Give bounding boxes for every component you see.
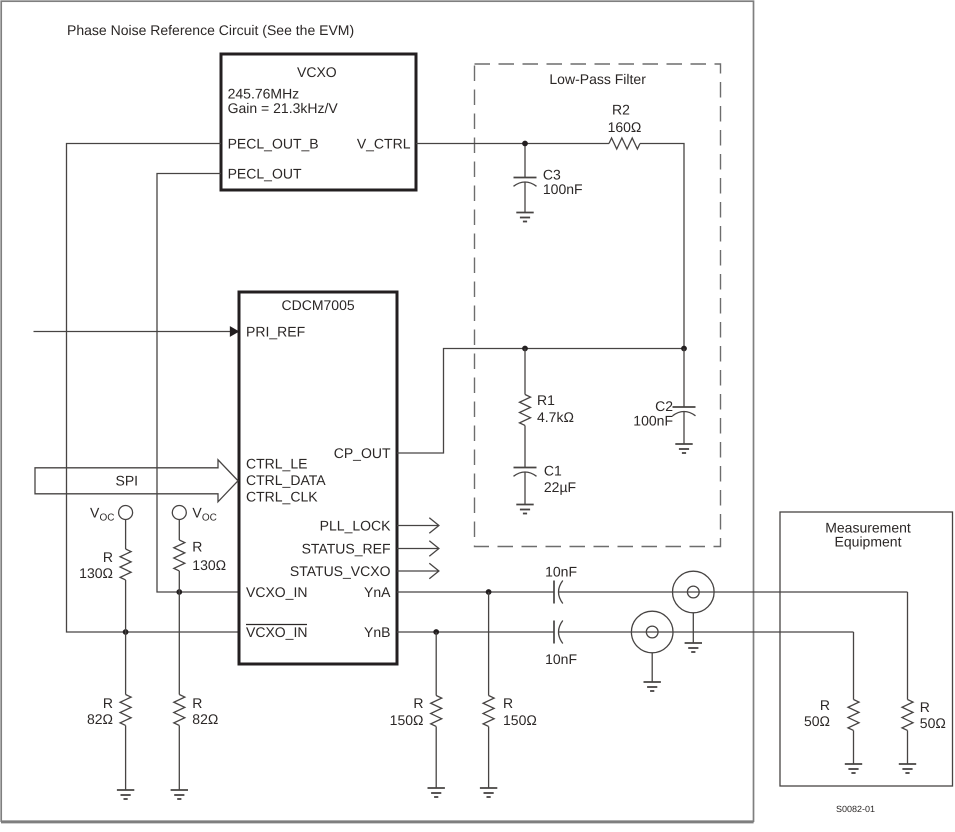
capacitor C3 100nF xyxy=(514,146,583,213)
svg-text:R: R xyxy=(413,695,423,711)
svg-text:130Ω: 130Ω xyxy=(79,565,113,581)
svg-text:C1: C1 xyxy=(544,463,562,479)
svg-text:150Ω: 150Ω xyxy=(503,712,537,728)
svg-text:100nF: 100nF xyxy=(633,413,673,429)
svg-text:10nF: 10nF xyxy=(545,564,577,580)
svg-text:10nF: 10nF xyxy=(545,651,577,667)
ground below C2 xyxy=(675,444,692,453)
wire YnA node to R 150 col2 xyxy=(488,592,490,696)
wire YnA to coupling cap xyxy=(397,591,554,593)
svg-text:V_CTRL: V_CTRL xyxy=(357,136,411,152)
svg-text:YnA: YnA xyxy=(364,584,391,600)
wire R150 col2 to ground xyxy=(488,727,490,789)
Voc terminal circle, column 1 xyxy=(90,505,133,524)
resistor R 130 column 2 xyxy=(174,539,226,574)
svg-text:CTRL_DATA: CTRL_DATA xyxy=(246,472,326,488)
resistor R1 4.7k xyxy=(520,392,574,425)
wire Voc to R 130 col1 xyxy=(125,520,127,550)
svg-text:CTRL_LE: CTRL_LE xyxy=(246,456,307,472)
svg-text:82Ω: 82Ω xyxy=(87,711,113,727)
svg-text:R2: R2 xyxy=(612,102,630,118)
junction node R1 top xyxy=(522,346,528,352)
svg-text:VCXO: VCXO xyxy=(297,64,337,80)
ground R50 left xyxy=(845,764,862,773)
Voc terminal circle, column 2 xyxy=(172,505,217,524)
wire R82 col2 to ground xyxy=(178,726,180,791)
resistor R 150 column 1 xyxy=(390,695,442,728)
resistor R 82 column 1 xyxy=(87,695,131,728)
Low-Pass Filter dashed enclosure xyxy=(475,64,721,547)
svg-text:22µF: 22µF xyxy=(544,479,576,495)
svg-text:SPI: SPI xyxy=(116,472,139,488)
svg-text:Phase Noise Reference Circuit: Phase Noise Reference Circuit (See the E… xyxy=(67,22,354,38)
capacitor 10nF on YnA xyxy=(545,564,577,604)
capacitor C1 22uF xyxy=(514,463,577,505)
svg-text:130Ω: 130Ω xyxy=(192,557,226,573)
Measurement Equipment box xyxy=(780,512,953,786)
svg-text:CP_OUT: CP_OUT xyxy=(334,445,391,461)
junction node: VCXO_IN / R divider column 2 xyxy=(176,589,182,595)
wire R130 col1 to node xyxy=(125,580,127,632)
svg-text:R: R xyxy=(920,699,930,715)
junction node YnB / R150 col1 xyxy=(433,629,439,635)
svg-text:CDCM7005: CDCM7005 xyxy=(282,297,355,313)
STATUS_VCXO output arrow xyxy=(397,563,439,579)
STATUS_REF output arrow xyxy=(397,541,439,557)
capacitor C2 100nF xyxy=(633,349,695,445)
CDCM7005 block U2 xyxy=(239,292,397,664)
wire 10nF to measurement equipment (YnB) xyxy=(559,631,854,633)
wire YnB into measurement, down to R50 left xyxy=(853,632,855,700)
wire YnA into measurement, down to R50 right xyxy=(907,592,909,700)
svg-text:82Ω: 82Ω xyxy=(192,711,218,727)
svg-text:CTRL_CLK: CTRL_CLK xyxy=(246,489,318,505)
resistor R 82 column 2 xyxy=(174,695,219,728)
wire YnB node to R 150 col1 xyxy=(435,632,437,696)
svg-text:R: R xyxy=(503,695,513,711)
coax connector on YnB xyxy=(631,611,673,682)
svg-text:50Ω: 50Ω xyxy=(920,715,946,731)
wire 10nF to measurement equipment (YnA) xyxy=(559,591,908,593)
wire PECL_OUT to VCXO_IN (left, down, right) xyxy=(157,174,238,593)
ground of YnA coax shield xyxy=(685,643,702,652)
svg-text:V: V xyxy=(192,505,202,521)
outer border frame of EVM circuit xyxy=(1,1,753,821)
wire node to R1 xyxy=(524,349,526,395)
wire R1 to C1 xyxy=(524,426,526,468)
wire Voc to R 130 col2 xyxy=(178,520,180,541)
resistor R 50 right xyxy=(902,699,946,731)
svg-text:160Ω: 160Ω xyxy=(608,119,642,135)
svg-text:Gain = 21.3kHz/V: Gain = 21.3kHz/V xyxy=(228,100,339,116)
ground of YnB coax shield xyxy=(644,682,661,691)
svg-text:R: R xyxy=(103,549,113,565)
ground column 2 xyxy=(171,790,188,799)
resistor R 50 left xyxy=(804,697,859,730)
svg-text:VCXO_IN: VCXO_IN xyxy=(246,624,307,640)
svg-text:4.7kΩ: 4.7kΩ xyxy=(537,409,574,425)
wire node to R 82 col2 xyxy=(178,592,180,695)
resistor R 130 column 1 xyxy=(79,549,131,581)
ground below C3 xyxy=(516,213,533,222)
svg-text:Low-Pass Filter: Low-Pass Filter xyxy=(549,71,646,87)
junction node C2 top xyxy=(681,346,687,352)
svg-text:PRI_REF: PRI_REF xyxy=(246,324,305,340)
wire node to R 82 col1 xyxy=(125,632,127,695)
svg-text:VCXO_IN: VCXO_IN xyxy=(246,584,307,600)
junction node V_CTRL / C3 xyxy=(522,141,528,147)
resistor R 150 column 2 xyxy=(483,695,537,728)
svg-text:STATUS_VCXO: STATUS_VCXO xyxy=(290,563,391,579)
svg-text:V: V xyxy=(90,505,100,521)
svg-text:R: R xyxy=(192,539,202,555)
ground column 1 xyxy=(117,790,134,799)
wire PRI_REF input xyxy=(34,331,232,333)
coax connector on YnA xyxy=(673,571,715,643)
svg-text:R1: R1 xyxy=(537,392,555,408)
svg-text:R: R xyxy=(192,695,202,711)
svg-text:Equipment: Equipment xyxy=(835,534,902,550)
arrowhead into PRI_REF pin xyxy=(231,327,239,336)
wire R130 col2 to node xyxy=(178,571,180,592)
svg-text:S0082-01: S0082-01 xyxy=(836,804,875,814)
svg-text:OC: OC xyxy=(100,513,115,524)
svg-text:STATUS_REF: STATUS_REF xyxy=(302,541,391,557)
junction node YnA / R150 col2 xyxy=(486,589,492,595)
svg-text:50Ω: 50Ω xyxy=(804,713,830,729)
ground below C1 xyxy=(516,505,533,514)
outer border bottom edge (thicker) xyxy=(1,822,754,824)
svg-text:100nF: 100nF xyxy=(543,181,583,197)
capacitor 10nF on YnB xyxy=(545,621,577,668)
svg-text:R: R xyxy=(103,695,113,711)
ground R150 col1 xyxy=(428,788,445,797)
wire R2 to C2 node xyxy=(640,144,684,349)
ground R150 col2 xyxy=(480,788,497,797)
wire R50 right to ground xyxy=(907,731,909,765)
junction node: VCXO_IN-bar / R divider column 1 xyxy=(123,629,129,635)
PLL_LOCK output arrow xyxy=(397,518,439,534)
svg-text:PECL_OUT: PECL_OUT xyxy=(228,166,302,182)
svg-text:150Ω: 150Ω xyxy=(390,712,424,728)
svg-text:OC: OC xyxy=(202,513,217,524)
svg-text:YnB: YnB xyxy=(364,624,390,640)
wire R82 col1 to ground xyxy=(125,726,127,791)
svg-text:PLL_LOCK: PLL_LOCK xyxy=(320,518,391,534)
SPI bus arrow into CTRL pins xyxy=(35,460,238,502)
wire YnB to coupling cap xyxy=(397,631,554,633)
svg-text:R: R xyxy=(820,697,830,713)
resistor R2 160ohm xyxy=(608,102,642,150)
wire V_CTRL from VCXO to R2 xyxy=(416,143,609,145)
wire R150 col1 to ground xyxy=(435,727,437,789)
wire CP_OUT to loop filter node xyxy=(397,349,684,454)
VCXO block U1 xyxy=(221,54,416,190)
svg-text:PECL_OUT_B: PECL_OUT_B xyxy=(228,136,319,152)
wire PECL_OUT_B to VCXO_IN-bar (left, down, right) xyxy=(67,144,238,633)
ground R50 right xyxy=(899,764,916,773)
wire R50 left to ground xyxy=(853,731,855,765)
